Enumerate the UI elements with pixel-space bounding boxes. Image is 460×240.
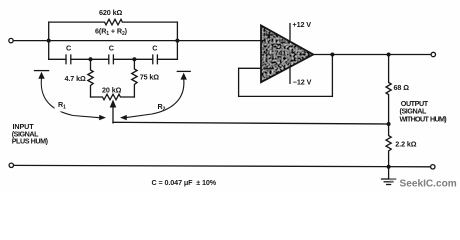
input terminal (top, open circle) (9, 38, 13, 42)
capacitor C (first) (65, 55, 67, 64)
svg-text:R2: R2 (158, 102, 166, 113)
wire: right vertical of twin-T (176, 22, 178, 59)
ganged arrow R2 (right arc) (177, 70, 190, 72)
svg-text:4.7 kΩ: 4.7 kΩ (65, 74, 86, 83)
svg-text:WITHOUT HUM): WITHOUT HUM) (400, 114, 448, 123)
wire: op-amp output (313, 54, 431, 56)
op-amp + marker (267, 32, 273, 38)
svg-text:C: C (152, 44, 157, 53)
node: input junction (47, 39, 51, 43)
wire: bottom rail (14, 165, 431, 166)
node: junction cap1/cap2 (89, 57, 93, 61)
watermark logo mark (390, 179, 397, 182)
wire (157, 58, 177, 60)
svg-text:C: C (66, 44, 71, 53)
label R1 (arrow) (55, 101, 71, 112)
output terminal (bottom, open circle) (431, 165, 435, 169)
ground symbol (388, 167, 390, 179)
node: output divider node (387, 122, 391, 126)
wire: capacitor row (49, 58, 66, 60)
svg-text:741: 741 (275, 49, 287, 58)
svg-text:PLUS HUM): PLUS HUM) (12, 137, 49, 146)
wire: feedback left vertical (238, 68, 240, 96)
wire: inverting input (239, 67, 261, 69)
svg-text:20 kΩ: 20 kΩ (102, 85, 122, 94)
op-amp U1 741 triangle (260, 24, 315, 84)
svg-text:C: C (109, 44, 114, 53)
wire: feedback right vertical to output (331, 55, 333, 97)
svg-text:75 kΩ: 75 kΩ (140, 72, 160, 81)
resistor 68 Ohm (vertical) (386, 55, 391, 125)
potentiometer 20 kOhm (horizontal) (91, 94, 135, 100)
svg-text:−12 V: −12 V (293, 77, 312, 86)
wire (71, 58, 109, 60)
capacitor C (third) (152, 55, 154, 64)
svg-text:6(R1 + R2): 6(R1 + R2) (95, 26, 128, 37)
input terminal (bottom, open circle) (9, 163, 13, 167)
op-amp - marker (265, 68, 271, 70)
svg-text:2.2 kΩ: 2.2 kΩ (395, 139, 416, 148)
wire: left vertical of twin-T (48, 22, 50, 59)
capacitor C (second) (108, 55, 110, 64)
ganged arrow R1 (left arc) (35, 70, 49, 72)
resistor 2.2 kOhm (vertical) (386, 124, 391, 167)
potentiometer wiper arrow (112, 106, 114, 123)
wire (113, 58, 152, 60)
resistor 4.7 kOhm (vertical) (88, 59, 93, 97)
label 741 (274, 49, 287, 56)
svg-text:C = 0.047 μF ± 10%: C = 0.047 μF ± 10% (152, 178, 217, 187)
node: 68 ohm tap (387, 53, 391, 57)
resistor 75 kOhm (vertical) (132, 59, 137, 97)
+12V supply line (289, 24, 291, 42)
wire: input terminal to op-amp + input (13, 40, 261, 42)
node: feedback tap (330, 53, 334, 57)
svg-text:68 Ω: 68 Ω (394, 83, 410, 92)
output terminal (top, open circle) (431, 52, 435, 56)
svg-text:SeekIC.com: SeekIC.com (400, 178, 457, 189)
svg-text:+12 V: +12 V (293, 20, 312, 29)
-12V supply line (289, 67, 291, 84)
resistor 620 kOhm (top branch) (49, 19, 178, 25)
node: ground junction (387, 165, 391, 169)
node: op-amp + input junction (175, 39, 179, 43)
node: junction cap2/cap3 (132, 57, 136, 61)
svg-text:620 kΩ: 620 kΩ (99, 8, 122, 17)
wire: feedback bottom (239, 95, 333, 97)
wire: wiper to feedback node (113, 122, 389, 124)
